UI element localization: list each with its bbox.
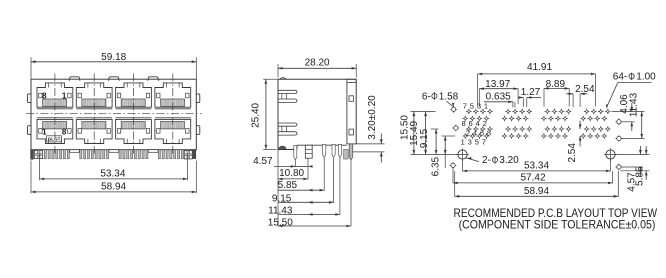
- front view: top row port 2 contacts: [82, 99, 106, 106]
- front view: top mounting tab 2: [108, 77, 119, 81]
- front view: pin label 1 (top port): [62, 92, 67, 101]
- svg-text:2: 2: [483, 119, 487, 128]
- dimension 1.27 (pcb): [519, 87, 541, 107]
- dimension 3.20±0.20 (side right): [353, 95, 385, 163]
- svg-text:1: 1: [42, 128, 47, 137]
- svg-text:1: 1: [461, 137, 465, 146]
- front view: top row port 2 outline: [76, 83, 112, 109]
- front view: bottom row port 3 contacts: [121, 122, 145, 129]
- side view: jack 1 contact detail: [278, 90, 297, 102]
- svg-text:1.00: 1.00: [636, 72, 656, 83]
- front view: solder pins under port 3: [119, 150, 148, 159]
- front view: top row port 1 contacts: [43, 99, 67, 106]
- pcb layout: hole cluster for jack 4 (16 holes): [580, 109, 610, 139]
- svg-text:57.42: 57.42: [520, 173, 545, 184]
- dimension 53.34 (front): [40, 154, 188, 181]
- svg-text:8: 8: [487, 128, 491, 137]
- side view: rear square hole 2: [349, 129, 353, 135]
- front view: pin label 1 (bottom port): [42, 128, 47, 137]
- svg-text:4.57: 4.57: [253, 156, 273, 167]
- svg-text:8: 8: [42, 92, 47, 101]
- front view: pin label 8 (bottom port): [62, 128, 67, 137]
- front view: connector body outline: [31, 79, 196, 150]
- front view: left shield leg: [31, 150, 34, 160]
- front view: bottom row port 4 outline: [155, 118, 191, 144]
- front view: solder pins under port 2: [80, 150, 109, 159]
- pcb layout: pin numbers 7 5 3 1: [463, 101, 488, 110]
- dimension 15.49 (pcb left): [409, 112, 427, 155]
- front view: vertical center line port column 4: [172, 74, 174, 154]
- front view: bottom row port 2 outline: [76, 118, 112, 144]
- pcb layout: pin numbers 1 3 5 7: [461, 137, 486, 146]
- svg-text:5: 5: [475, 137, 479, 146]
- front view: top row port 3 outline: [116, 83, 152, 109]
- svg-text:13.97: 13.97: [485, 79, 510, 90]
- front view: bottom row port 1 contacts: [43, 122, 67, 129]
- side view: dimension reference extension line: [277, 150, 279, 227]
- dimension 15.50 (pcb left): [400, 112, 436, 155]
- front view: bottom row port 2 contacts: [82, 122, 106, 129]
- svg-text:8: 8: [62, 128, 67, 137]
- pcb layout: shield hole 5 (φ1.58): [616, 135, 623, 142]
- front view: bottom row port 4 contacts: [161, 122, 185, 129]
- dimension 58.94 (front): [31, 161, 196, 194]
- svg-text:64-: 64-: [613, 72, 627, 83]
- front view: right side shield tab 1: [196, 94, 200, 103]
- front view: top mounting tab 3: [148, 77, 159, 81]
- svg-text:2.54: 2.54: [567, 143, 578, 163]
- svg-text:5.85: 5.85: [278, 180, 298, 191]
- pcb layout: shield hole 2 (φ1.58): [452, 125, 459, 132]
- svg-text:4: 4: [476, 119, 480, 128]
- dimension 5.85 (pcb right): [621, 146, 650, 186]
- svg-text:2.54: 2.54: [575, 84, 595, 95]
- label 6-φ1.58 with leader: [422, 91, 459, 107]
- svg-text:15.50: 15.50: [268, 217, 293, 228]
- label 2-φ3.20 with leader: [466, 155, 519, 166]
- front view: bottom tab between ports 1: [70, 150, 80, 153]
- dimension 4.57 (pcb right): [615, 146, 649, 192]
- caption line 1: [454, 206, 658, 220]
- svg-text:10.80: 10.80: [279, 168, 304, 179]
- front view: top row port 1 outline: [37, 83, 73, 109]
- svg-text:GLGT: GLGT: [48, 137, 61, 142]
- svg-text:6.35: 6.35: [431, 156, 442, 176]
- svg-text:1: 1: [62, 92, 67, 101]
- svg-text:8: 8: [462, 119, 466, 128]
- label 64-φ1.00 with leader: [606, 72, 656, 109]
- side view: bottom front shield finger: [278, 146, 286, 149]
- pcb layout: shield hole 6 (φ1.58): [616, 164, 623, 171]
- front view: top mounting tab 1: [69, 77, 80, 81]
- pcb layout: shield hole 4 (φ1.58): [616, 118, 623, 125]
- side view: pin row 3 (9.15): [332, 144, 335, 157]
- pcb layout: hole cluster for jack 3 (16 holes): [541, 109, 571, 139]
- front view: horizontal center line: [26, 112, 202, 114]
- dimension 4.06 (pcb right): [612, 94, 645, 131]
- front view: left side shield tab 1: [28, 94, 32, 103]
- dimension 53.34 (pcb): [463, 159, 611, 172]
- front view: left screw post: [35, 150, 43, 158]
- dimension 2.54 vertical (pcb): [567, 121, 581, 163]
- front view: top row port 4 outline: [155, 83, 191, 109]
- side view: body outline: [278, 79, 356, 149]
- svg-text:3.20±0.20: 3.20±0.20: [367, 95, 378, 140]
- svg-text:1.27: 1.27: [521, 87, 541, 98]
- front view: bottom row port 3 outline: [116, 118, 152, 144]
- svg-text:25.40: 25.40: [251, 102, 262, 127]
- dimension 58.94 (pcb): [455, 171, 619, 198]
- svg-text:0.635: 0.635: [486, 91, 511, 102]
- pcb layout: pin numbers 8 6 4 2: [462, 119, 487, 128]
- svg-text:2-: 2-: [482, 155, 491, 166]
- front view: pin label 8 (top port): [42, 92, 47, 101]
- front view: left side shield tab 2: [28, 126, 32, 135]
- pcb layout: shield hole 3 (φ1.58): [450, 162, 457, 169]
- svg-text:8.89: 8.89: [546, 79, 566, 90]
- svg-text:7: 7: [463, 101, 467, 110]
- dimension 4.57 (side): [253, 156, 312, 168]
- dimension 11.43 (side): [268, 158, 340, 216]
- pcb layout: hole cluster for jack 2 (16 holes): [502, 109, 532, 139]
- pcb layout: mounting hole 1 (φ3.20): [456, 148, 469, 161]
- svg-text:6-: 6-: [422, 91, 431, 102]
- dimension 9.15 (pcb left): [419, 128, 439, 154]
- dimension 0.635 (pcb): [484, 91, 515, 107]
- side view: pin row 2 (5.85): [323, 144, 326, 157]
- side view: standoff foot: [305, 145, 312, 158]
- dimension 15.50 (side): [268, 161, 351, 229]
- svg-text:59.18: 59.18: [101, 52, 126, 63]
- side view: shield leg (side): [344, 149, 349, 159]
- dimension 11.43 (pcb right): [621, 92, 644, 138]
- svg-text:53.34: 53.34: [524, 161, 549, 172]
- side view: pin row 1 (4.57): [294, 146, 297, 161]
- svg-text:7: 7: [482, 137, 486, 146]
- dimension 5.85 (side): [278, 158, 325, 192]
- dimension 9.15 (side): [272, 158, 334, 205]
- front view: top row port 3 contacts: [121, 99, 145, 106]
- svg-text:2: 2: [466, 128, 470, 137]
- side view: top rear step: [347, 79, 356, 82]
- dimension 2.54 horizontal (pcb): [566, 84, 595, 107]
- dimension 13.97 (pcb): [479, 79, 518, 106]
- svg-text:11.43: 11.43: [628, 92, 639, 117]
- svg-text:9.15: 9.15: [419, 128, 430, 148]
- pcb layout: hole cluster for jack 1 (16 holes): [463, 109, 493, 139]
- svg-text:5: 5: [470, 101, 474, 110]
- svg-text:1: 1: [484, 101, 488, 110]
- front view: vertical center line port column 1: [54, 74, 56, 154]
- svg-text:5.85: 5.85: [635, 166, 646, 186]
- pcb layout: pin numbers 2 4 6 8: [466, 128, 491, 137]
- front view: right screw post: [184, 151, 192, 159]
- pcb layout: shield hole 1 (φ1.58): [450, 106, 457, 113]
- svg-text:3: 3: [468, 137, 472, 146]
- front view: GLGT logo box: [47, 136, 62, 142]
- svg-text:53.34: 53.34: [100, 169, 125, 180]
- dimension 41.91 (pcb): [478, 62, 596, 107]
- caption line 2: [459, 218, 656, 232]
- pcb layout: hole row extension line (left): [411, 154, 458, 156]
- front view: bottom tab between ports 3: [148, 150, 158, 153]
- svg-text:3.20: 3.20: [499, 155, 519, 166]
- dimension 57.42 (pcb): [453, 168, 613, 185]
- front view: bottom tab between ports 2: [109, 150, 119, 153]
- svg-text:58.94: 58.94: [524, 186, 549, 197]
- side view: jack 2 contact detail: [278, 123, 297, 135]
- side view: rear square hole 1: [349, 96, 353, 102]
- svg-text:41.91: 41.91: [527, 62, 552, 73]
- dimension 8.89 (pcb): [544, 79, 569, 107]
- dimension 25.40 (side height): [251, 79, 278, 149]
- pcb layout: mounting hole 2 (φ3.20): [604, 148, 617, 161]
- dimension 28.20 (side width): [278, 57, 356, 77]
- svg-text:11.43: 11.43: [268, 205, 293, 216]
- svg-text:9.15: 9.15: [272, 194, 292, 205]
- svg-text:4: 4: [473, 128, 477, 137]
- front view: vertical center line port column 2: [93, 74, 95, 154]
- front view: solder pins under port 4: [158, 150, 187, 159]
- side view: top latch bump: [280, 78, 287, 80]
- side view: pin row 4 (11.43): [338, 144, 341, 157]
- svg-text:(COMPONENT SIDE TOLERANCE±0.05: (COMPONENT SIDE TOLERANCE±0.05): [459, 218, 656, 232]
- front view: solder pins under port 1: [40, 150, 69, 159]
- dimension 6.35 (pcb left): [431, 136, 456, 176]
- front view: vertical center line port column 3: [133, 74, 135, 154]
- svg-text:28.20: 28.20: [305, 57, 330, 68]
- side view: pin row 5 (15.50): [349, 144, 353, 160]
- svg-text:58.94: 58.94: [101, 182, 126, 193]
- front view: right side shield tab 2: [196, 126, 200, 135]
- dimension 59.18 (front width): [31, 52, 196, 78]
- front view: top row port 4 contacts: [161, 99, 185, 106]
- svg-text:1.58: 1.58: [439, 91, 459, 102]
- dimension 10.80 (side): [278, 159, 308, 181]
- svg-text:6: 6: [480, 128, 484, 137]
- svg-text:6: 6: [469, 119, 473, 128]
- front view: right shield leg: [193, 150, 196, 159]
- front view: bottom row port 1 outline: [37, 118, 73, 144]
